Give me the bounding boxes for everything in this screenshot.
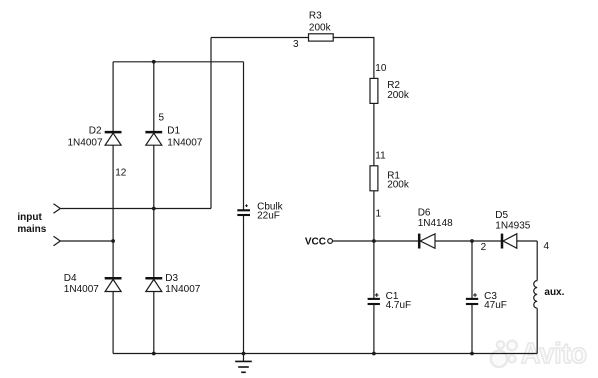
diode D3 [145, 273, 200, 295]
resistor R1 [370, 166, 410, 191]
svg-text:mains: mains [17, 224, 46, 235]
resistor R3 [309, 11, 334, 41]
node: bottom rail / ground [242, 352, 246, 356]
input mains label [17, 212, 46, 235]
wire: C1 bottom to ground rail [373, 304, 375, 354]
capacitor Cbulk [237, 202, 283, 222]
svg-text:5: 5 [159, 113, 165, 124]
wire: mains bottom lead [60, 240, 113, 242]
wire: R2 to R1 segment [373, 103, 375, 165]
input terminal arrow bottom [54, 236, 61, 245]
wire: VCC horizontal line through D6 and D5 [332, 240, 537, 242]
diode D2 [68, 126, 122, 149]
capacitor C1 [368, 291, 412, 311]
wire: C3 branch upper [471, 241, 473, 299]
node: bottom rail / C1 [372, 352, 376, 356]
wire: R3 right to R2 top [333, 38, 374, 79]
wire: D2/D4 branch vertical [112, 62, 114, 354]
diode D5 [495, 210, 530, 249]
svg-text:10: 10 [375, 63, 387, 74]
node: bottom rail / C3 [470, 352, 474, 356]
wire: bottom rail [113, 353, 537, 355]
diode D6 [418, 207, 453, 248]
svg-text:D2: D2 [89, 126, 102, 137]
svg-text:1N4007: 1N4007 [167, 138, 202, 149]
svg-text:VCC: VCC [305, 237, 326, 248]
wire: pin3 top wire to R3 [211, 37, 309, 39]
svg-text:aux.: aux. [544, 287, 564, 298]
svg-text:D3: D3 [165, 273, 178, 284]
svg-text:12: 12 [115, 168, 127, 179]
node: top rail / D1 branch junction [152, 60, 156, 64]
wire: vertical from top wire down to mains top line [210, 38, 212, 209]
node: net 2 junction [470, 239, 474, 243]
svg-text:22uF: 22uF [257, 211, 280, 222]
wire: aux branch upper [536, 241, 538, 281]
svg-text:R3: R3 [309, 11, 322, 22]
svg-text:D6: D6 [418, 207, 431, 218]
svg-text:1N4007: 1N4007 [68, 138, 103, 149]
node: mains bottom / D2-D4 junction [111, 239, 115, 243]
node: bottom rail / D3 branch [152, 352, 156, 356]
svg-text:1N4148: 1N4148 [418, 218, 453, 229]
resistor R2 [370, 78, 410, 103]
watermark avito logo [491, 341, 517, 367]
svg-text:4: 4 [544, 241, 550, 252]
svg-text:11: 11 [375, 151, 386, 162]
wire: R1 to C1 top through VCC node [373, 191, 375, 299]
wire: C3 branch lower [471, 304, 473, 354]
svg-text:200k: 200k [387, 90, 410, 101]
svg-text:D5: D5 [495, 210, 508, 221]
inductor aux winding [534, 281, 565, 309]
svg-text:1N4007: 1N4007 [165, 284, 200, 295]
svg-text:R2: R2 [387, 80, 400, 91]
node: VCC / R1 / C1 junction [372, 239, 376, 243]
capacitor C3 [466, 291, 507, 311]
diode D4 [64, 273, 122, 295]
svg-text:D1: D1 [167, 126, 180, 137]
VCC terminal [305, 237, 333, 248]
diode D1 [145, 126, 202, 149]
svg-text:input: input [17, 212, 42, 223]
wire: Cbulk branch upper [243, 62, 245, 211]
svg-text:3: 3 [293, 39, 299, 50]
wire: top rail of bridge [113, 61, 243, 63]
svg-text:4.7uF: 4.7uF [386, 300, 412, 311]
svg-text:1N4935: 1N4935 [495, 221, 530, 232]
wire: aux branch lower [536, 308, 538, 353]
node: mains top / D1-D3 junction [152, 207, 156, 211]
wire: mains top lead [60, 208, 211, 210]
wire: Cbulk branch lower [243, 215, 245, 354]
svg-text:2: 2 [481, 242, 487, 253]
svg-text:1N4007: 1N4007 [64, 284, 99, 295]
input terminal arrow top [54, 204, 61, 213]
svg-text:D4: D4 [64, 273, 77, 284]
svg-text:200k: 200k [387, 179, 410, 190]
svg-text:47uF: 47uF [484, 300, 507, 311]
svg-text:1: 1 [376, 209, 382, 220]
wire: D1/D3 branch vertical [153, 62, 155, 354]
svg-text:200k: 200k [309, 23, 332, 34]
ground [235, 354, 252, 373]
